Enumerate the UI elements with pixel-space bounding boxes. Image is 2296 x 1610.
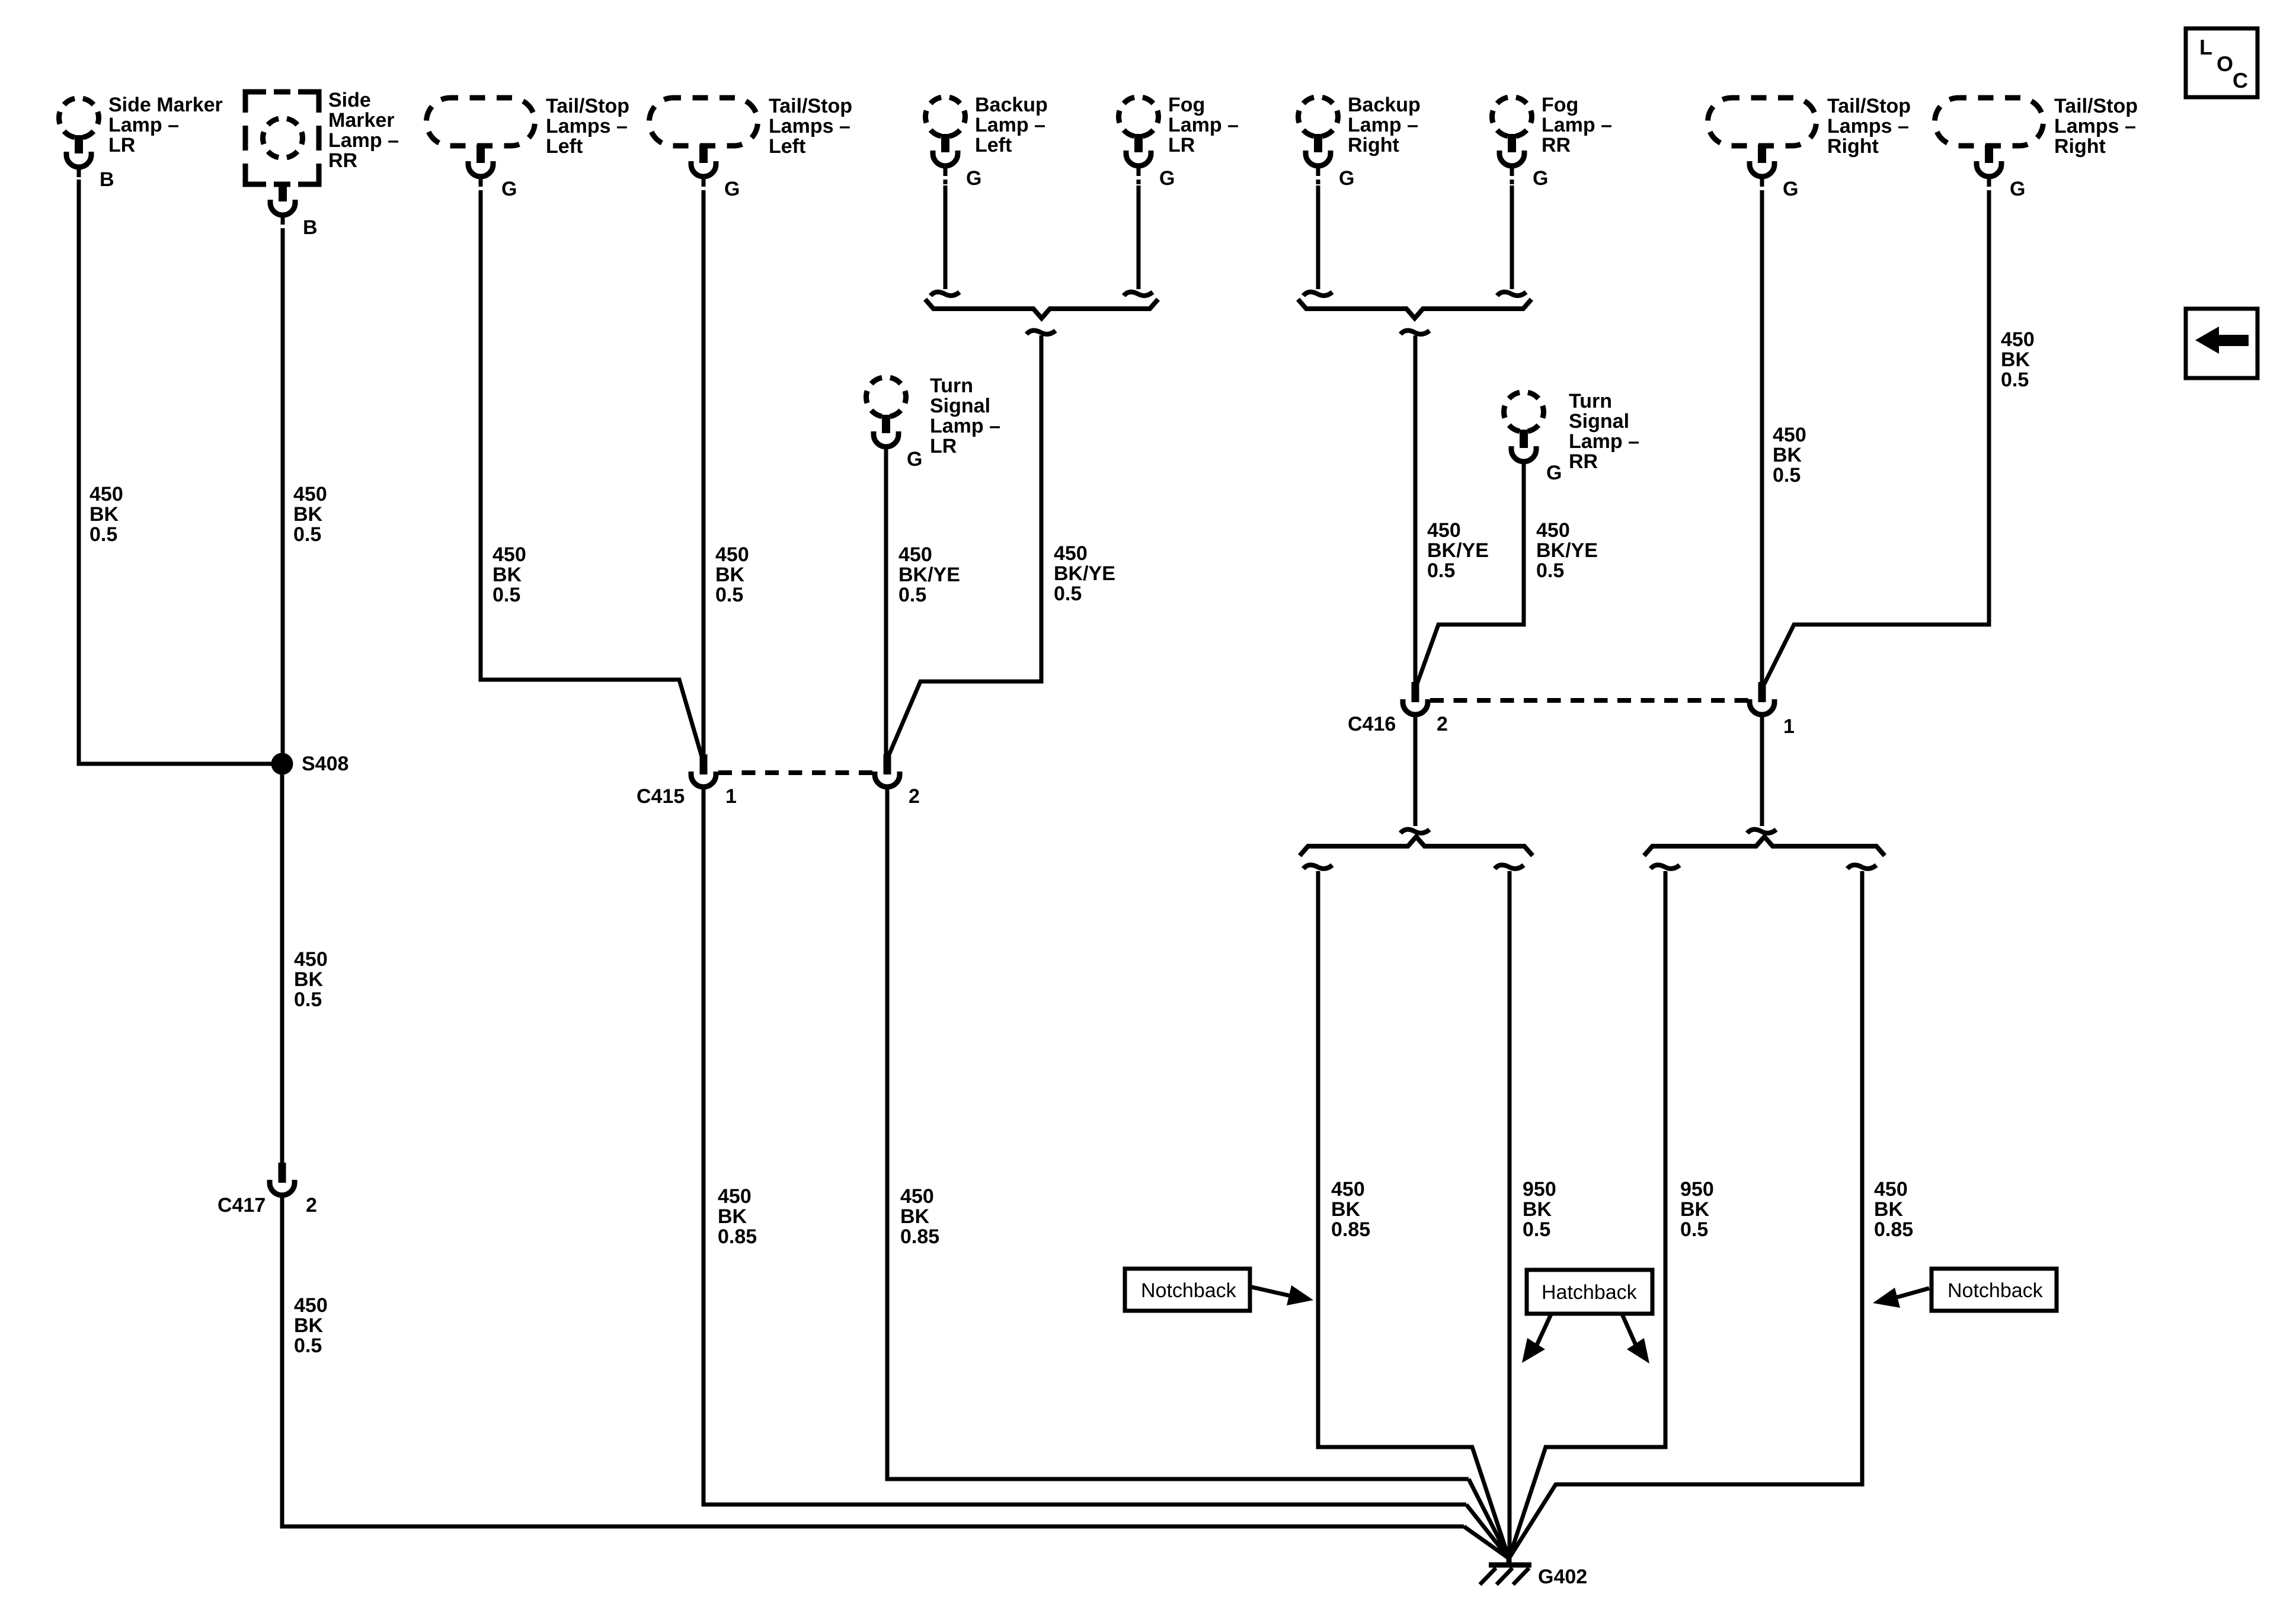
wire: 450 BK 0.5 from Side Marker LR down and right to S408 [79,180,271,764]
lamp: Side Marker Lamp - LR (dashed bulb) [59,98,99,138]
svg-text:1: 1 [725,785,737,808]
wire: 450 BK 0.85 (notchback right) down, left, diagonal into G402 [1509,871,1862,1558]
svg-text:G: G [724,178,740,200]
svg-text:RR: RR [1542,134,1571,156]
wire: from C416 pin 2 down to fan-out brace [1414,715,1418,826]
svg-text:0.85: 0.85 [1331,1218,1370,1241]
svg-text:0.85: 0.85 [900,1225,939,1248]
svg-text:C416: C416 [1348,713,1396,735]
svg-text:Lamp –: Lamp – [975,114,1045,136]
svg-text:C415: C415 [637,785,685,808]
lamp: Turn Signal Lamp - RR [1504,392,1544,432]
svg-text:0.5: 0.5 [1427,559,1455,582]
svg-text:BK/YE: BK/YE [1054,562,1115,585]
harness brace joining Backup Left and Fog LR [925,299,1158,318]
svg-text:450: 450 [715,543,749,566]
svg-text:950: 950 [1523,1178,1556,1201]
svg-text:Signal: Signal [1569,410,1629,433]
svg-text:BK: BK [1773,444,1802,466]
svg-text:Marker: Marker [328,109,395,132]
svg-text:LR: LR [930,435,957,457]
wire: diagonal into G402 from C417 run [1464,1526,1509,1558]
svg-text:G: G [1533,167,1548,190]
svg-text:BK: BK [900,1205,930,1228]
svg-text:G: G [1546,462,1562,484]
svg-text:2: 2 [909,785,920,808]
hook at right fan-out brace right end [1847,865,1876,869]
wire: 450 BK 0.5 from Tail/Stop Right 2 down, left, diagonal into C416 pin 1 [1764,194,1989,684]
hook at Backup Left wire end [930,292,960,296]
svg-text:0.5: 0.5 [294,988,322,1011]
svg-text:BK: BK [715,564,745,586]
lamp: Side Marker Lamp - RR (dashed box with bulb) [245,92,319,184]
svg-text:450: 450 [1536,519,1570,542]
legend: LOC box [2186,28,2257,97]
svg-text:Notchback: Notchback [1141,1279,1237,1302]
svg-text:450: 450 [1054,542,1088,565]
svg-text:Right: Right [1827,135,1879,158]
wire: 450 BK/YE 0.5 from left brace down, left, diagonal into C415 pin 2 [888,335,1041,756]
svg-text:BK: BK [493,564,522,586]
svg-text:LR: LR [108,134,135,156]
hook below left brace [1027,331,1056,334]
svg-text:G: G [966,167,981,190]
lamp: Tail/Stop Lamps - Left (second) [650,98,758,146]
svg-text:BK: BK [2001,348,2030,371]
svg-text:450: 450 [493,543,526,566]
svg-text:Lamp –: Lamp – [1168,114,1239,136]
svg-text:450: 450 [89,483,123,505]
svg-text:S408: S408 [302,753,348,775]
svg-text:0.5: 0.5 [293,523,321,546]
svg-text:450: 450 [1773,424,1806,446]
svg-text:450: 450 [900,1185,934,1208]
hook above left fan-out brace [1400,830,1430,833]
svg-text:Notchback: Notchback [1948,1279,2044,1302]
svg-text:Right: Right [2054,135,2106,158]
svg-text:Signal: Signal [930,395,990,417]
wire: 450 BK 0.85 from C415 pin 1 to ground run [703,787,1466,1505]
wire: 450 BK/YE 0.5 from Turn Signal LR down into C415 pin 2 [884,447,888,757]
svg-text:Tail/Stop: Tail/Stop [769,95,852,117]
svg-text:LR: LR [1168,134,1195,156]
lamp: Backup Lamp - Right [1299,97,1338,137]
svg-text:Fog: Fog [1542,94,1578,116]
wire: 450 BK/YE 0.5 from Turn Signal RR down, left, diagonal into C416 pin 2 [1417,462,1524,684]
svg-text:2: 2 [306,1194,317,1217]
svg-text:Lamp –: Lamp – [1569,430,1639,453]
svg-text:450: 450 [1427,519,1461,542]
hook at Backup Right wire end [1303,292,1332,296]
svg-text:Backup: Backup [975,94,1048,116]
svg-text:L: L [2199,35,2212,59]
svg-text:450: 450 [2001,328,2035,351]
svg-text:BK: BK [1523,1198,1552,1221]
wire: ground lead of Fog Lamp RR [1510,185,1514,289]
svg-text:Backup: Backup [1348,94,1421,116]
svg-text:Lamp –: Lamp – [930,415,1000,437]
svg-text:BK: BK [1331,1198,1361,1221]
svg-text:0.5: 0.5 [1680,1218,1708,1241]
lamp: Backup Lamp - Left [926,97,965,137]
svg-text:BK/YE: BK/YE [1536,539,1598,562]
svg-text:BK/YE: BK/YE [1427,539,1489,562]
svg-text:Lamps –: Lamps – [769,115,850,137]
svg-text:Left: Left [769,135,805,158]
svg-text:Tail/Stop: Tail/Stop [546,95,629,117]
svg-text:Turn: Turn [930,375,973,397]
svg-text:0.5: 0.5 [1536,559,1564,582]
connector C416 pin 2 (terminal) [1412,682,1419,702]
svg-text:C417: C417 [218,1194,266,1217]
svg-text:G: G [501,178,517,200]
splice S408 [271,753,293,775]
svg-text:0.5: 0.5 [1054,582,1082,605]
svg-text:0.5: 0.5 [1523,1218,1550,1241]
svg-text:0.5: 0.5 [89,523,117,546]
lamp: Tail/Stop Lamps - Right (first) [1708,98,1817,146]
fan-out brace below C416 pin 2 [1300,837,1533,856]
wire: 450 BK 0.5 from C417 down to ground run [282,1195,1464,1526]
svg-text:Left: Left [546,135,583,158]
svg-text:C: C [2233,68,2248,92]
svg-text:G: G [907,448,922,470]
svg-text:Lamp –: Lamp – [328,129,399,152]
svg-text:G: G [1783,178,1798,200]
lamp: Turn Signal Lamp - LR [866,377,906,417]
svg-text:BK: BK [1680,1198,1710,1221]
fan-out brace below C416 pin 1 [1644,837,1885,856]
svg-text:0.85: 0.85 [1874,1218,1913,1241]
hook at Fog LR wire end [1124,292,1153,296]
svg-text:450: 450 [293,483,327,505]
svg-text:BK: BK [293,503,323,526]
wire: diagonal into G402 from C415 pin1 run [1466,1505,1509,1558]
svg-text:BK: BK [89,503,119,526]
wire: 450 BK 0.5 from S408 down to C417 [280,764,284,1163]
svg-text:RR: RR [328,149,357,172]
svg-text:Side Marker: Side Marker [108,94,223,116]
harness brace joining Backup Right and Fog RR [1298,299,1531,318]
svg-text:Turn: Turn [1569,390,1612,412]
wire: ground lead of Backup Lamp Right [1316,185,1320,289]
lamp: Tail/Stop Lamps - Left (first) [427,98,535,146]
svg-text:BK: BK [1874,1198,1904,1221]
svg-text:450: 450 [1874,1178,1908,1201]
wire: 950 BK 0.5 down, left, diagonal into G402 [1509,871,1665,1558]
connector C416 pin 1 (terminal) [1758,682,1766,702]
legend: left-arrow box [2186,309,2257,378]
lamp: Fog Lamp - LR [1119,97,1159,137]
svg-text:BK: BK [718,1205,747,1228]
wire: diagonal into G402 from C415 pin2 run [1469,1479,1509,1558]
svg-text:B: B [303,216,318,239]
svg-text:450: 450 [294,948,328,971]
wire: 450 BK 0.5 from Tail/Stop Left 2 down into C415 pin 1 [702,194,706,757]
connector C416 mating dashes [1430,698,1750,703]
connector C415 mating dashes [718,770,876,775]
svg-text:0.5: 0.5 [294,1334,322,1357]
connector C417 pin 2 (terminal) [279,1163,286,1183]
svg-text:450: 450 [1331,1178,1365,1201]
hook below right brace [1400,331,1430,334]
wire: ground lead of Backup Lamp Left [944,185,948,289]
svg-text:Right: Right [1348,134,1399,156]
hook at left fan-out brace right end [1495,865,1524,869]
svg-text:G: G [2010,178,2025,200]
svg-text:0.5: 0.5 [715,584,743,606]
svg-text:1: 1 [1783,715,1795,738]
svg-text:2: 2 [1437,713,1448,735]
svg-text:G: G [1339,167,1354,190]
svg-text:BK/YE: BK/YE [898,564,960,586]
svg-text:Lamps –: Lamps – [1827,115,1909,137]
wire: 450 BK 0.5 from Side Marker RR down to S408 [281,233,285,764]
svg-text:0.85: 0.85 [718,1225,757,1248]
svg-text:950: 950 [1680,1178,1714,1201]
svg-text:G402: G402 [1538,1566,1587,1588]
ground G402 symbol [1507,1558,1512,1565]
svg-text:Lamp –: Lamp – [1542,114,1612,136]
svg-text:Lamps –: Lamps – [2054,115,2136,137]
callout box: Hatchback with two arrows [1527,1270,1652,1314]
svg-text:0.5: 0.5 [2001,369,2029,391]
hook above right fan-out brace [1747,830,1776,833]
wire: 450 BK 0.85 (notchback) down, right, diagonal into G402 [1318,871,1509,1558]
callout box: Notchback (right) with arrow [1932,1269,2057,1311]
connector C415 pin 2 (terminal) [884,754,891,774]
wire: 450 BK/YE 0.5 from right brace down into C416 pin 2 [1414,335,1418,682]
svg-text:450: 450 [718,1185,752,1208]
wire: 450 BK 0.85 from C415 pin 2 to ground run [887,787,1469,1479]
svg-text:0.5: 0.5 [1773,464,1801,486]
svg-text:BK: BK [294,1314,324,1337]
svg-text:Lamp –: Lamp – [108,114,179,136]
connector C415 pin 1 (terminal) [700,754,708,774]
svg-text:0.5: 0.5 [898,584,926,606]
svg-text:Tail/Stop: Tail/Stop [2054,95,2138,117]
lamp: Tail/Stop Lamps - Right (second) [1935,98,2044,146]
lamp: Fog Lamp - RR [1492,97,1532,137]
hook at right fan-out brace left end [1651,865,1680,869]
svg-text:Side: Side [328,89,371,111]
svg-text:450: 450 [294,1294,328,1317]
svg-text:Lamps –: Lamps – [546,115,628,137]
svg-text:0.5: 0.5 [493,584,520,606]
svg-text:BK: BK [294,968,324,991]
svg-text:Hatchback: Hatchback [1542,1281,1638,1304]
svg-text:O: O [2217,52,2233,76]
wire: from C416 pin 1 down to fan-out brace [1760,715,1764,826]
wire: 450 BK 0.5 from Tail/Stop Right 1 down into C416 pin 1 [1760,194,1764,682]
svg-text:RR: RR [1569,450,1598,473]
svg-text:G: G [1159,167,1175,190]
hook at Fog RR wire end [1497,292,1526,296]
wire: 950 BK 0.5 (hatchback) straight down into G402 [1508,871,1512,1562]
wire: ground lead of Fog Lamp LR [1137,185,1141,289]
svg-text:B: B [100,168,114,191]
svg-text:450: 450 [898,543,932,566]
svg-text:Fog: Fog [1168,94,1205,116]
svg-text:Lamp –: Lamp – [1348,114,1418,136]
hook at left fan-out brace left end [1303,865,1332,869]
svg-text:Tail/Stop: Tail/Stop [1827,95,1911,117]
svg-text:Left: Left [975,134,1012,156]
callout box: Notchback (left) with arrow [1125,1269,1250,1311]
wire: 450 BK 0.5 from Tail/Stop Left 1 down, right, diagonal into C415 pin 1 [481,194,702,758]
